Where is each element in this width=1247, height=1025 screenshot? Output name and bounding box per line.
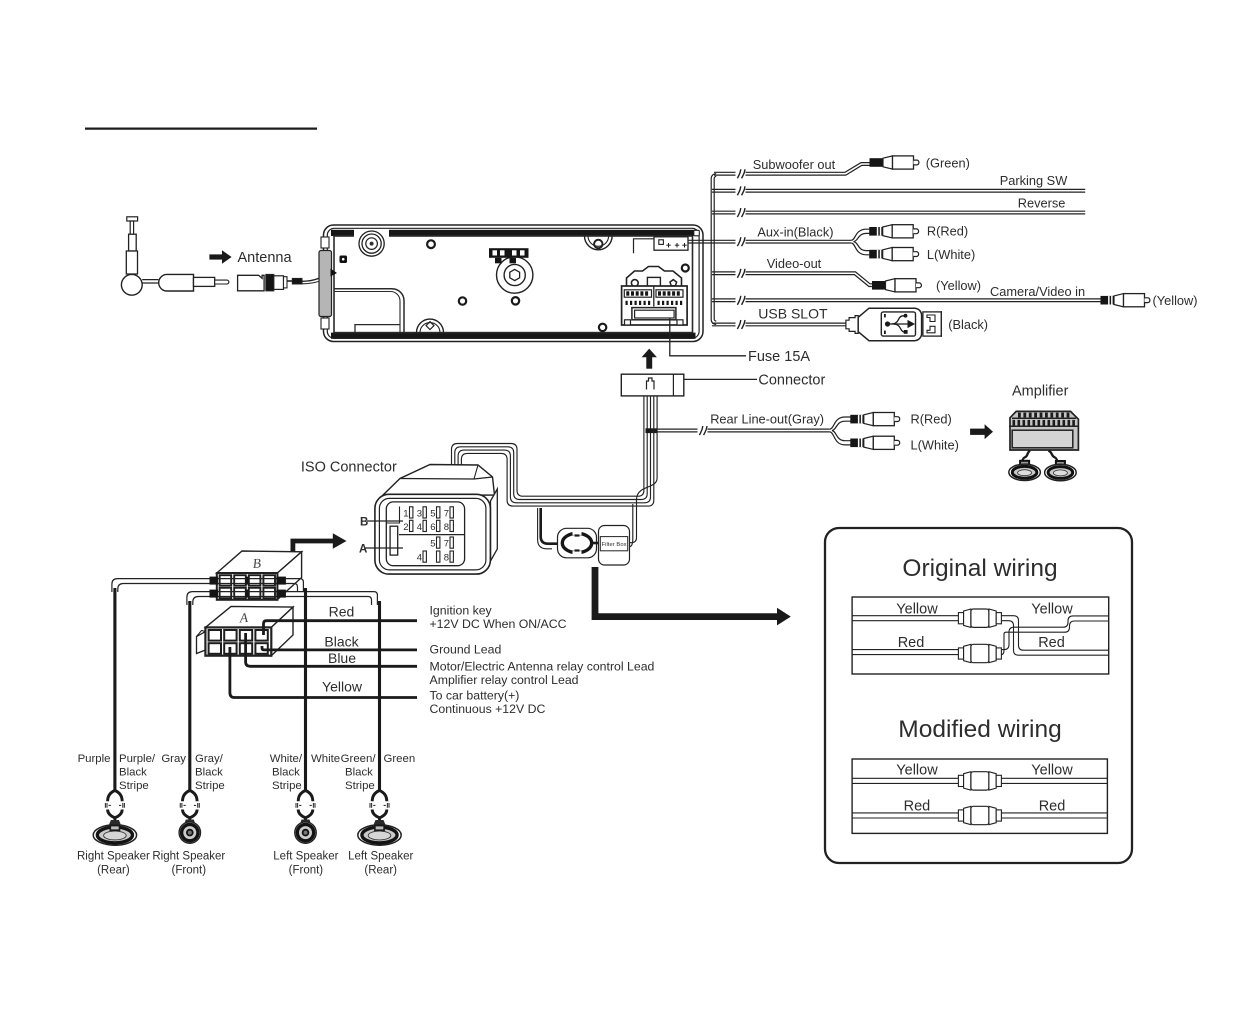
tube end blobs at connector B <box>210 577 286 598</box>
svg-text:L(White): L(White) <box>927 247 975 262</box>
antenna T cap <box>127 217 138 221</box>
divider line <box>399 534 465 536</box>
svg-text:(Yellow): (Yellow) <box>1153 293 1198 308</box>
title underline <box>85 128 317 130</box>
lead description texts <box>430 604 655 717</box>
svg-text:Original wiring: Original wiring <box>902 555 1057 582</box>
svg-text:Amplifier relay control Lead: Amplifier relay control Lead <box>430 673 579 687</box>
antenna mast assembly <box>121 217 228 295</box>
svg-text:R(Red): R(Red) <box>911 411 952 426</box>
wire red (ignition) <box>264 621 418 635</box>
svg-text:A: A <box>238 610 249 626</box>
svg-text:Green/: Green/ <box>341 753 377 765</box>
rear oval speaker <box>108 820 121 826</box>
svg-text:Stripe: Stripe <box>272 780 302 792</box>
right face <box>491 489 498 561</box>
svg-text:Blue: Blue <box>328 650 356 666</box>
svg-text:Modified wiring: Modified wiring <box>898 716 1061 743</box>
speaker name labels <box>77 851 414 877</box>
svg-text:Stripe: Stripe <box>195 780 225 792</box>
svg-text:4: 4 <box>417 522 422 533</box>
wire black (ground) <box>262 646 417 650</box>
interior outline <box>334 236 693 333</box>
svg-text:Red: Red <box>1038 635 1065 651</box>
RCA plug L(White) aux <box>869 248 918 261</box>
svg-text:Yellow: Yellow <box>896 602 938 618</box>
wire subwoofer out <box>714 163 870 176</box>
pin panel <box>386 502 464 566</box>
svg-text:(Rear): (Rear) <box>97 865 130 877</box>
antenna jack on chassis <box>354 230 389 257</box>
antenna mid shaft <box>129 234 137 251</box>
svg-text:Yellow: Yellow <box>1031 602 1073 618</box>
svg-text:White/: White/ <box>270 753 303 765</box>
head unit top black bar <box>331 230 696 236</box>
rear oval speaker <box>373 820 386 826</box>
wire reverse <box>712 210 1085 212</box>
svg-text:Continuous +12V DC: Continuous +12V DC <box>430 702 546 716</box>
front face <box>375 494 491 574</box>
wire aux-in <box>688 239 851 241</box>
motor black connector block <box>489 248 529 258</box>
antenna plug shaft <box>194 277 215 286</box>
svg-text:Filter Box: Filter Box <box>602 542 627 548</box>
svg-text:Aux-in(Black): Aux-in(Black) <box>757 225 833 240</box>
chassis screws <box>427 240 689 331</box>
svg-text:Purple/: Purple/ <box>119 753 156 765</box>
socket arch top <box>627 267 682 287</box>
svg-text:Connector: Connector <box>758 372 825 388</box>
RCA plug (Yellow) camera <box>1101 294 1150 307</box>
svg-text:Stripe: Stripe <box>345 780 375 792</box>
wire ribbon from connector (S path to ISO connector) <box>452 396 658 547</box>
wire red left <box>852 649 958 651</box>
key slot <box>390 526 398 555</box>
wire yellow (battery) <box>230 647 417 698</box>
ISO pin slots and numbers <box>403 509 449 564</box>
head unit left mounting bracket <box>319 251 332 317</box>
svg-text:2: 2 <box>403 522 408 533</box>
bullet connector yellow modified <box>958 772 1001 790</box>
wire harness bundle vertical (right of unit) <box>711 174 716 325</box>
Connector label <box>684 378 757 380</box>
speaker bus tube 1 (upper) <box>112 579 304 592</box>
wire video-out <box>712 272 872 287</box>
svg-text:Gray: Gray <box>161 753 186 765</box>
svg-text:Purple: Purple <box>78 753 111 765</box>
wiring connector block <box>621 374 684 396</box>
RCA plug (Yellow) video <box>872 279 921 292</box>
filter choke oval <box>562 533 591 552</box>
svg-text:Right Speaker: Right Speaker <box>77 851 150 863</box>
antenna thin rod <box>130 221 133 234</box>
svg-text:Green: Green <box>384 753 416 765</box>
svg-text:Parking SW: Parking SW <box>1000 173 1068 188</box>
RCA plug L(White) rear <box>850 436 899 449</box>
svg-text:Amplifier: Amplifier <box>1012 384 1069 400</box>
speaker drop wires <box>113 588 116 791</box>
wire color labels <box>322 604 363 695</box>
wire split loop <box>108 791 123 822</box>
svg-text:Left Speaker: Left Speaker <box>273 851 338 863</box>
motor wheel <box>497 257 533 293</box>
svg-text:Black: Black <box>345 767 373 779</box>
top face <box>382 465 495 497</box>
aux Y split <box>851 229 869 255</box>
svg-text:Yellow: Yellow <box>1031 763 1073 779</box>
wire choke to filter box <box>592 542 601 545</box>
antenna plug pin <box>215 280 229 284</box>
bullet connector bottom <box>958 644 1001 662</box>
crossover wire: yellow-left to red-right <box>1001 616 1108 651</box>
svg-text:1: 1 <box>403 509 408 520</box>
front round speaker <box>300 820 312 826</box>
svg-text:Yellow: Yellow <box>322 679 363 695</box>
antenna lower shaft <box>126 251 137 274</box>
svg-text:(Rear): (Rear) <box>364 865 397 877</box>
svg-text:L(White): L(White) <box>911 437 959 452</box>
speaker bus tube 2 (lower) <box>187 592 378 605</box>
connector B (3D block) <box>217 551 302 600</box>
svg-text:Black: Black <box>195 767 223 779</box>
svg-text:5: 5 <box>430 509 435 520</box>
main ISO socket on chassis <box>622 267 688 326</box>
bullet connector red modified <box>958 806 1001 824</box>
connector A (3D block) <box>197 606 294 655</box>
wire yellow modified <box>852 777 958 779</box>
svg-text:Yellow: Yellow <box>896 763 938 779</box>
wire red modified <box>852 812 958 814</box>
svg-text:Black: Black <box>119 767 147 779</box>
filter box <box>599 526 630 566</box>
svg-text:Black: Black <box>324 633 359 649</box>
corner square top-right <box>694 230 700 236</box>
svg-text:Ground Lead: Ground Lead <box>430 643 502 657</box>
svg-text:Reverse: Reverse <box>1018 195 1066 210</box>
antenna cable curve into head unit jack <box>302 246 370 282</box>
socket feet <box>625 320 631 325</box>
5th wire to filter <box>630 396 658 543</box>
svg-text:Camera/Video in: Camera/Video in <box>990 284 1085 299</box>
Original/Modified wiring outer box <box>825 528 1132 863</box>
svg-text:3: 3 <box>417 509 422 520</box>
antenna plug cylinder <box>159 274 194 291</box>
svg-text:+12V DC When ON/ACC: +12V DC When ON/ACC <box>430 617 567 631</box>
pin rows <box>624 290 651 297</box>
wire split loop <box>298 791 313 822</box>
svg-text:Red: Red <box>1039 799 1066 815</box>
svg-text:Black: Black <box>272 767 300 779</box>
svg-text:B: B <box>252 555 261 571</box>
speaker wire color labels <box>78 753 416 792</box>
wire parking SW <box>712 188 1085 190</box>
black wedge at cable exit <box>331 269 338 277</box>
front round speaker <box>184 820 196 826</box>
filter choke housing <box>558 528 597 558</box>
top-right wire-exit connector <box>634 237 689 254</box>
fuse leader line <box>670 318 746 356</box>
wire split loop <box>183 791 198 822</box>
amp speaker left <box>1009 461 1041 481</box>
wire blue (antenna relay) <box>246 633 417 666</box>
svg-text:(Green): (Green) <box>926 155 970 170</box>
amp speaker wires <box>1022 451 1030 462</box>
svg-text:Right Speaker: Right Speaker <box>152 851 225 863</box>
svg-text:Red: Red <box>898 635 925 651</box>
bullet connector top <box>958 609 1001 627</box>
bottom bracket bump <box>417 319 444 333</box>
original wiring inner box <box>852 597 1109 674</box>
svg-text:Antenna: Antenna <box>238 250 293 266</box>
top bracket bump <box>585 236 613 250</box>
svg-text:Ignition key: Ignition key <box>430 604 493 618</box>
arrow to amplifier <box>970 429 985 435</box>
RCA plug (Green) <box>870 156 919 169</box>
wire yellow left <box>852 615 958 617</box>
svg-text:4: 4 <box>417 553 422 564</box>
svg-text:5: 5 <box>430 539 435 550</box>
wire from ribbon to filter choke <box>541 508 560 544</box>
USB plug <box>846 308 941 341</box>
rear line-out branch junction <box>646 428 658 433</box>
svg-text:R(Red): R(Red) <box>927 224 968 239</box>
svg-text:6: 6 <box>430 522 435 533</box>
svg-text:8: 8 <box>444 522 449 533</box>
svg-text:Gray/: Gray/ <box>195 753 224 765</box>
wire camera/video in <box>712 298 1101 300</box>
head unit bottom black bar <box>331 333 696 339</box>
svg-text:(Front): (Front) <box>172 865 207 877</box>
svg-text:Subwoofer out: Subwoofer out <box>753 157 836 172</box>
ISO connector plug (3D) <box>375 465 497 575</box>
RCA plug R(Red) aux <box>869 225 918 238</box>
svg-text:Left Speaker: Left Speaker <box>348 851 413 863</box>
USB trident icon <box>884 314 914 334</box>
svg-text:7: 7 <box>444 539 449 550</box>
svg-text:Fuse 15A: Fuse 15A <box>748 349 810 365</box>
black arrow near ISO connector <box>293 541 334 555</box>
svg-text:ISO Connector: ISO Connector <box>301 460 397 476</box>
wire rear line-out <box>651 428 830 430</box>
svg-text:7: 7 <box>444 509 449 520</box>
arrow to Antenna label <box>209 250 231 263</box>
svg-text:Rear Line-out(Gray): Rear Line-out(Gray) <box>710 412 824 427</box>
svg-text:Stripe: Stripe <box>119 780 149 792</box>
wire split loop <box>372 791 387 822</box>
head unit chassis (rear view) <box>319 225 703 342</box>
rear line-out Y split <box>830 417 851 445</box>
svg-text:(Black): (Black) <box>948 317 988 332</box>
thick arrow to Original wiring <box>595 567 778 617</box>
up arrow (plug direction) <box>646 357 652 369</box>
svg-text:Red: Red <box>904 799 931 815</box>
crossover wire: red-left to yellow-right <box>1001 616 1108 650</box>
svg-text:A: A <box>359 544 367 556</box>
svg-text:USB SLOT: USB SLOT <box>758 305 828 321</box>
antenna link lines <box>142 279 158 281</box>
RCA plug R(Red) rear <box>850 413 899 426</box>
amplifier body <box>1009 411 1078 450</box>
svg-text:(Yellow): (Yellow) <box>936 278 981 293</box>
svg-text:Motor/Electric Antenna relay c: Motor/Electric Antenna relay control Lea… <box>430 660 655 674</box>
svg-text:B: B <box>360 517 368 529</box>
svg-text:To car battery(+): To car battery(+) <box>430 689 520 703</box>
small square screw <box>340 256 348 264</box>
svg-text:White: White <box>311 753 340 765</box>
antenna female connector with cable <box>238 274 302 291</box>
chassis left stamped panel <box>334 289 404 333</box>
svg-text:Red: Red <box>329 604 355 620</box>
fuse slot <box>632 308 676 320</box>
svg-text:8: 8 <box>444 553 449 564</box>
modified wiring inner box <box>852 759 1107 833</box>
amp speaker right <box>1045 461 1077 481</box>
socket body <box>622 286 688 325</box>
svg-text:(Front): (Front) <box>289 865 324 877</box>
svg-text:Video-out: Video-out <box>767 256 822 271</box>
wire USB <box>712 322 846 324</box>
antenna ball joint <box>121 274 142 295</box>
